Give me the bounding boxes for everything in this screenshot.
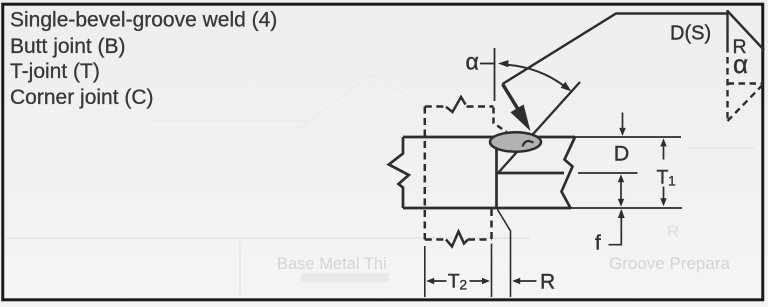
dimension R arrow	[519, 280, 537, 282]
T2 extension line left	[424, 246, 426, 297]
welding symbol leader line	[503, 14, 728, 85]
svg-text:Groove Prepara: Groove Prepara	[609, 254, 730, 273]
right plate top edge	[535, 136, 575, 139]
alpha tick	[480, 63, 496, 65]
faint bleed-through diagonals	[300, 74, 432, 128]
faint bleed-through line left	[150, 120, 310, 122]
svg-text:T: T	[657, 167, 669, 189]
leader arrowhead	[511, 105, 529, 129]
member top edge dashes	[425, 105, 494, 108]
svg-text:α: α	[466, 48, 479, 74]
corner dashed diagonal	[728, 85, 764, 122]
alpha construction vertical	[494, 48, 496, 101]
svg-text:R: R	[540, 271, 555, 294]
member bottom break zigzag	[446, 232, 468, 247]
member right edge upper dashed	[494, 108, 507, 133]
left plate broken left edge	[389, 137, 409, 208]
svg-text:T: T	[448, 271, 460, 293]
title text block	[10, 9, 277, 109]
dimension T2 arrows	[433, 280, 483, 282]
svg-text:f: f	[595, 232, 601, 255]
svg-text:T-joint (T): T-joint (T)	[10, 60, 100, 83]
faint text second line	[301, 273, 389, 282]
svg-text:D(S): D(S)	[670, 23, 711, 45]
weld nugget	[490, 132, 541, 151]
corner diagonal	[728, 12, 764, 51]
svg-text:Single-bevel-groove weld (4): Single-bevel-groove weld (4)	[10, 9, 277, 32]
arc left arrowhead	[498, 60, 509, 67]
member right edge lower dashed	[490, 209, 493, 240]
dashed vertical member (T-joint option)	[425, 97, 507, 247]
right plate break zigzag	[562, 137, 576, 208]
svg-text:D: D	[614, 142, 630, 166]
faint bleed-through line right	[688, 148, 756, 150]
svg-text:R: R	[667, 222, 679, 241]
T2 extension line right	[491, 244, 493, 298]
corner dashed horizontal	[728, 82, 764, 84]
svg-text:2: 2	[459, 277, 467, 293]
svg-text:Base Metal Thi: Base Metal Thi	[277, 255, 387, 273]
dimension f arrows	[620, 179, 622, 201]
f leader	[609, 218, 622, 245]
bottom surface extension line	[571, 207, 682, 209]
top surface extension line	[575, 136, 681, 138]
svg-text:α: α	[733, 49, 748, 79]
member left edge dashed	[424, 107, 427, 240]
faint bleed-through column line	[239, 238, 241, 296]
faint bleed-through table line	[6, 237, 530, 239]
extension lines right	[571, 137, 682, 208]
arc right arrowhead	[561, 82, 572, 92]
R jog extension line	[498, 210, 511, 298]
svg-text:Corner joint (C): Corner joint (C)	[10, 86, 154, 109]
leader arrow shaft	[503, 84, 519, 110]
corner vertical dashed	[726, 46, 728, 121]
member top break zigzag	[446, 97, 466, 112]
weld nugget hook mark	[523, 141, 534, 147]
member bottom edge dashes	[425, 238, 492, 241]
right plate	[497, 137, 575, 208]
left plate	[389, 137, 571, 208]
corner vertical solid	[726, 10, 728, 46]
left plate top edge	[403, 136, 497, 139]
bevel face line	[498, 82, 580, 173]
dimension D arrow	[622, 113, 624, 135]
dimension T1 arrows	[663, 145, 665, 201]
plates bottom edge	[403, 207, 571, 210]
groove bottom line	[497, 172, 564, 175]
angle arc	[507, 65, 566, 87]
svg-text:1: 1	[668, 173, 676, 189]
svg-text:Butt joint (B): Butt joint (B)	[10, 35, 126, 58]
groove bottom extension line	[578, 172, 638, 174]
joint root face line	[495, 138, 498, 209]
